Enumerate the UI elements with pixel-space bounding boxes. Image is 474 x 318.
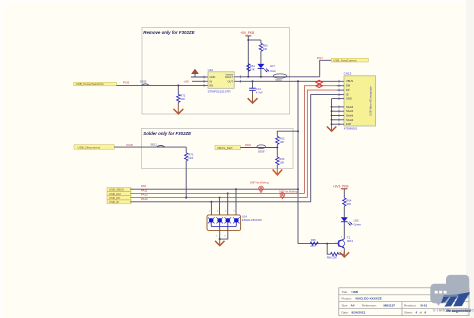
svg-text:MB1137: MB1137: [384, 304, 396, 308]
pin stubs CN13: [332, 86, 345, 125]
svg-text:Size:: Size:: [342, 304, 349, 308]
svg-text:PG6: PG6: [123, 80, 129, 84]
svg-text:10K: 10K: [279, 140, 284, 144]
resistor R62 10K: [276, 131, 298, 147]
connector CN13 USB Micro-AB receptacle: [344, 72, 376, 131]
resistor R66 22K: [327, 244, 345, 260]
ground (below R72): [177, 104, 179, 113]
svg-text:USB: USB: [352, 290, 359, 294]
DNF diamond mark on DM: [316, 84, 323, 88]
ground (below C14): [252, 94, 254, 103]
svg-text:A4: A4: [351, 304, 355, 308]
transistor T2 9013 (NPN): [335, 236, 353, 253]
svg-text:ID: ID: [346, 93, 349, 97]
riser: DP red: [307, 90, 336, 198]
pin end tick OUT: [239, 80, 241, 83]
ground (emitter): [343, 251, 345, 257]
watermark bubble small with dots: [430, 284, 453, 306]
svg-text:Green: Green: [354, 222, 362, 226]
title block: [339, 288, 469, 316]
svg-text:R65: R65: [311, 238, 316, 242]
net label USB_ID: [107, 200, 131, 204]
svg-text:10K: 10K: [279, 161, 284, 165]
svg-text:USB_Disconnect: USB_Disconnect: [78, 145, 101, 149]
svg-text:Project:: Project:: [342, 297, 352, 301]
svg-text:+3V3_PKB: +3V3_PKB: [333, 184, 349, 188]
wire: label to EN pin: [116, 84, 208, 86]
svg-text:VBUS: VBUS: [346, 79, 353, 83]
wire common rail inside ESD: [211, 223, 236, 227]
region box: Remove only for F302ZE: [142, 28, 290, 115]
svg-text:Red: Red: [271, 69, 276, 73]
LED LD6 Green: [341, 217, 362, 237]
svg-text:T2: T2: [347, 236, 351, 240]
wire: VBUS_DET to divider: [240, 147, 277, 149]
svg-text:STMPS2151STR: STMPS2151STR: [208, 90, 232, 94]
svg-text:47K: 47K: [310, 244, 315, 248]
svg-text:EN: EN: [210, 84, 214, 88]
DNF marker 2 (circle): [280, 193, 285, 199]
svg-text:GND: GND: [210, 75, 216, 79]
svg-text:USB_HostCurrent: USB_HostCurrent: [333, 58, 356, 62]
wire shield bus: [331, 99, 333, 127]
wire FAULT line: [234, 76, 320, 78]
svg-text:R66 22K: R66 22K: [327, 255, 337, 259]
svg-text:C14: C14: [256, 87, 261, 91]
svg-text:CN13: CN13: [344, 72, 352, 76]
wire ESD stub pin6: [235, 189, 237, 215]
TVS diode D1: [208, 217, 215, 223]
svg-text:Shield: Shield: [346, 105, 354, 109]
svg-text:DP: DP: [346, 88, 350, 92]
resistor R65 47K: [310, 238, 318, 248]
watermark bubble large: [446, 275, 469, 299]
svg-text:SB38: SB38: [258, 150, 265, 154]
wire GND pin: [191, 76, 208, 78]
net label USB_HostCurrent: [331, 58, 368, 62]
svg-text:Shield: Shield: [346, 109, 354, 113]
ESD array U14 ESDALC6V1W5: [207, 214, 262, 230]
svg-text:U14: U14: [242, 214, 247, 218]
power arrow +5V (to U12): [192, 69, 199, 77]
solder bridge SB38: [257, 145, 266, 154]
svg-text:47K: 47K: [250, 67, 255, 71]
svg-text:Solder only for F302ZE: Solder only for F302ZE: [143, 131, 192, 136]
svg-text:Date:: Date:: [342, 310, 349, 314]
svg-text:+5V: +5V: [184, 80, 191, 84]
resistor R72 10K: [177, 85, 186, 104]
svg-text:+5V_PKB: +5V_PKB: [240, 31, 254, 35]
ST logo: [441, 292, 470, 307]
TVS diode D4: [233, 217, 240, 223]
svg-text:GND: GND: [346, 97, 352, 101]
junction node: [177, 84, 179, 86]
solder bridge SB12: [150, 143, 165, 148]
DNF diamond mark on VBUS: [316, 80, 323, 84]
TVS diode D3: [225, 217, 232, 223]
region box: Solder only for F302ZE: [142, 128, 294, 168]
wire USB_DP row: [130, 197, 307, 199]
op-amp/IC U12 STMPS2151STR: [208, 68, 235, 94]
svg-text:life.augmented: life.augmented: [446, 309, 471, 313]
resistor R60 330: [259, 40, 268, 64]
wire ESD ground stems: [216, 227, 228, 241]
svg-text:FAULT: FAULT: [225, 75, 233, 79]
svg-text:PG7: PG7: [317, 56, 323, 60]
svg-text:Revision:: Revision:: [404, 304, 417, 308]
wire ESD stub pin1: [210, 202, 212, 215]
svg-text:LD6: LD6: [354, 218, 359, 222]
svg-text:DNF Not Working: DNF Not Working: [250, 182, 269, 185]
pin end ticks CN13: [338, 80, 340, 126]
svg-text:IN: IN: [210, 79, 213, 83]
net label VBUS_DET: [215, 145, 240, 150]
wire ESD stub pin3: [219, 198, 221, 215]
pin end ticks U12 left: [203, 76, 205, 87]
svg-text:LD7: LD7: [270, 64, 275, 68]
svg-text:NUCLEO-XXXXZE: NUCLEO-XXXXZE: [356, 297, 382, 301]
DNF marker 1 (circle): [259, 186, 264, 193]
svg-text:R70: R70: [188, 153, 193, 157]
riser: ID: [311, 95, 337, 202]
riser: DM red: [305, 86, 337, 194]
svg-text:Title:: Title:: [342, 290, 349, 294]
svg-text:8/24/2013: 8/24/2013: [352, 310, 366, 314]
wire USB_DM row: [130, 192, 305, 194]
svg-text:SB34: SB34: [275, 78, 282, 82]
svg-text:USB Micro-AB receptacle: USB Micro-AB receptacle: [368, 86, 372, 116]
svg-text:of: of: [420, 310, 423, 314]
wire USB_VBUS row: [130, 188, 298, 190]
svg-text:Remove only for F302ZE: Remove only for F302ZE: [143, 30, 195, 35]
svg-text:Sheet:: Sheet:: [404, 310, 413, 314]
wire up to USB_HostCurrent label: [320, 60, 332, 77]
resistor R63 10K: [276, 148, 285, 169]
power +5V_PKB: [240, 31, 254, 77]
svg-text:PA9: PA9: [245, 143, 251, 147]
node: +5V_PKB branch: [247, 39, 249, 41]
svg-text:ESDALC6V1W5: ESDALC6V1W5: [242, 218, 262, 222]
svg-text:R63: R63: [279, 157, 284, 161]
svg-text:U12: U12: [208, 68, 214, 72]
wire base drive: [298, 243, 339, 245]
resistor R64 330: [343, 198, 352, 217]
resistor R70 1K5: [185, 147, 194, 198]
svg-text:SB35: SB35: [140, 80, 147, 84]
svg-text:USB_PowerSwitchOn: USB_PowerSwitchOn: [76, 82, 105, 86]
riser: VBUS net vertical: [297, 80, 299, 243]
ground (ESD): [219, 239, 221, 245]
wire: USB_Disconnect to R70: [114, 146, 186, 148]
svg-text:Reference:: Reference:: [362, 304, 377, 308]
svg-text:R60: R60: [263, 43, 268, 47]
ground (below R63): [276, 168, 278, 175]
svg-text:R62: R62: [279, 136, 284, 140]
net label USB_VBUS: [107, 187, 131, 191]
svg-text:R72: R72: [180, 94, 185, 98]
svg-text:6: 6: [425, 310, 427, 314]
wire emitter: [343, 248, 345, 254]
svg-text:B-01: B-01: [421, 304, 428, 308]
svg-text:1K5: 1K5: [188, 156, 193, 160]
svg-text:OUT: OUT: [228, 79, 234, 83]
wire USB_ID row: [130, 201, 311, 203]
svg-text:DNF Not Working: DNF Not Working: [279, 190, 298, 193]
svg-text:Shield: Shield: [346, 114, 354, 118]
svg-text:R61: R61: [250, 64, 255, 68]
solder bridge SB35: [140, 80, 149, 86]
svg-text:PG8: PG8: [126, 143, 132, 147]
svg-text:R64: R64: [346, 198, 351, 202]
svg-text:4.7uF: 4.7uF: [256, 90, 263, 94]
svg-text:330: 330: [263, 47, 268, 51]
svg-text:DM: DM: [346, 84, 350, 88]
power +3V3_PKB: [333, 184, 349, 198]
capacitor C14 4.7uF: [249, 80, 263, 94]
svg-text:USB_ID: USB_ID: [109, 200, 119, 204]
TVS diode D2: [216, 217, 223, 223]
pin end tick FAULT: [239, 75, 241, 78]
node: FAULT/LED: [260, 76, 262, 78]
wire branch to R60: [248, 39, 261, 41]
net label USB_DP: [107, 196, 131, 200]
wire ESD stub pin4: [227, 193, 229, 215]
svg-text:EXP: EXP: [346, 122, 351, 126]
pin numbers 1 3 4 6: [209, 211, 236, 213]
node: divider: [276, 147, 278, 149]
net label USB_DM: [107, 192, 131, 196]
net label USB_PowerSwitchOn: [74, 82, 117, 86]
svg-text:Shield: Shield: [346, 118, 354, 122]
wire OUT line to CN13 VBUS: [234, 80, 344, 82]
node: FAULT/R61: [247, 76, 249, 78]
svg-text:SB12: SB12: [150, 143, 157, 147]
svg-text:4: 4: [416, 310, 418, 314]
net label USB_Disconnect: [74, 145, 114, 150]
svg-text:330: 330: [346, 202, 351, 206]
node: base junction: [326, 243, 328, 245]
resistor R61 47K (on +5V stem): [247, 64, 256, 72]
svg-text:10K: 10K: [180, 97, 185, 101]
svg-text:475966001: 475966001: [344, 127, 358, 131]
LED LD7 Red: [257, 64, 276, 77]
ground (CN13 shield): [331, 126, 333, 130]
wire IN pin: [192, 80, 208, 82]
svg-text:9013: 9013: [347, 239, 353, 243]
svg-text:VBUS_DET: VBUS_DET: [217, 146, 233, 150]
solder bridge SB34 (oval on VBUS feed): [273, 74, 287, 82]
